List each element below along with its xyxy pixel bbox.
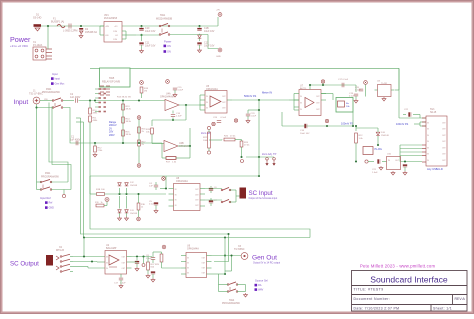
svg-text:200V: 200V xyxy=(109,134,115,137)
svg-text:PROGRAMASW: PROGRAMASW xyxy=(41,175,60,178)
svg-text:MS22ANW03B: MS22ANW03B xyxy=(156,18,172,21)
svg-text:1.0uF: 1.0uF xyxy=(178,90,184,92)
svg-text:Input: Input xyxy=(55,78,61,81)
svg-text:OUT: OUT xyxy=(122,256,126,258)
svg-text:+9 to +0 VDC: +9 to +0 VDC xyxy=(10,44,29,48)
svg-text:GN: GN xyxy=(167,50,171,53)
svg-text:PL-RG: PL-RG xyxy=(375,148,382,151)
svg-text:0.1uF: 0.1uF xyxy=(149,204,155,206)
svg-text:38.3k: 38.3k xyxy=(126,134,132,136)
svg-text:OUT: OUT xyxy=(442,160,446,162)
svg-text:OPA1644A: OPA1644A xyxy=(206,88,218,91)
svg-text:OUT: OUT xyxy=(442,135,446,137)
svg-text:ON: ON xyxy=(167,45,171,48)
svg-text:Meter IN: Meter IN xyxy=(262,91,272,95)
svg-text:1k: 1k xyxy=(141,207,143,209)
svg-text:OUT: OUT xyxy=(122,268,126,270)
svg-text:R13 38.3k 1W: R13 38.3k 1W xyxy=(117,97,132,99)
svg-text:Zero Adj. TP: Zero Adj. TP xyxy=(262,152,277,156)
svg-text:0.1uF: 0.1uF xyxy=(221,117,227,119)
svg-text:OUT: OUT xyxy=(442,154,446,156)
svg-text:27.4k: 27.4k xyxy=(244,145,250,147)
svg-text:Zero Adj: Zero Adj xyxy=(201,131,211,135)
svg-text:Power: Power xyxy=(10,35,31,44)
svg-text:1.0uF: 1.0uF xyxy=(251,116,257,118)
svg-text:1uF 400V: 1uF 400V xyxy=(70,139,81,142)
svg-text:ZUK1209S5: ZUK1209S5 xyxy=(104,17,118,20)
svg-text:Soundcard Interface: Soundcard Interface xyxy=(370,275,448,285)
svg-text:1uF 400V: 1uF 400V xyxy=(70,96,81,99)
svg-text:BAL/AMP: BAL/AMP xyxy=(106,247,117,250)
svg-text:500mV FS: 500mV FS xyxy=(244,94,257,98)
svg-text:PROGRAMASW: PROGRAMASW xyxy=(222,302,241,305)
svg-text:OUT: OUT xyxy=(122,262,126,264)
svg-text:OUT: OUT xyxy=(316,96,320,98)
svg-text:OPA1644A: OPA1644A xyxy=(176,180,188,183)
svg-text:+9V: +9V xyxy=(216,10,220,12)
svg-text:OUT: OUT xyxy=(442,147,446,149)
svg-text:OUT: OUT xyxy=(195,205,199,207)
svg-text:OUT: OUT xyxy=(195,189,199,191)
svg-text:38.3k: 38.3k xyxy=(126,121,132,123)
svg-text:1uF: 1uF xyxy=(149,186,153,188)
svg-text:1M: 1M xyxy=(144,91,147,93)
svg-text:GND: GND xyxy=(216,56,221,58)
svg-text:SIL15: SIL15 xyxy=(430,111,437,114)
svg-text:Output of the full-scale input: Output of the full-scale input xyxy=(249,197,278,200)
svg-text:COM: COM xyxy=(113,39,118,41)
svg-text:Input Ref: Input Ref xyxy=(40,196,51,200)
svg-text:Document Number:: Document Number: xyxy=(354,297,391,301)
svg-text:Input: Input xyxy=(14,99,29,106)
svg-text:1N4148: 1N4148 xyxy=(130,213,138,215)
svg-text:TITLE: #TEST9: TITLE: #TEST9 xyxy=(354,288,384,292)
svg-text:OUT: OUT xyxy=(316,109,320,111)
svg-text:1k: 1k xyxy=(101,202,103,204)
svg-text:OPA1644: OPA1644 xyxy=(179,145,190,148)
svg-text:OUT: OUT xyxy=(195,194,199,196)
svg-text:Ref: Ref xyxy=(49,202,53,205)
svg-text:10uF 16V: 10uF 16V xyxy=(204,30,215,33)
svg-text:OUT: OUT xyxy=(202,268,206,270)
svg-text:L-0935 12PM: L-0935 12PM xyxy=(63,30,77,33)
svg-text:OUT: OUT xyxy=(442,122,446,124)
svg-text:OUT: OUT xyxy=(202,258,206,260)
svg-text:100mV FS: 100mV FS xyxy=(341,122,354,126)
svg-text:27.4k: 27.4k xyxy=(230,136,236,138)
svg-text:Any USB/A-D: Any USB/A-D xyxy=(427,167,443,171)
svg-text:Source Sel: Source Sel xyxy=(255,279,268,283)
svg-text:1.0uF: 1.0uF xyxy=(372,172,378,174)
svg-text:GND: GND xyxy=(49,207,55,210)
svg-text:Output 0V to 14 RC output: Output 0V to 14 RC output xyxy=(253,261,280,264)
svg-text:0.1uF: 0.1uF xyxy=(355,90,361,92)
svg-text:REV:A: REV:A xyxy=(455,297,466,301)
svg-text:WAV: WAV xyxy=(258,289,264,292)
svg-text:TS1-LF-BNC: TS1-LF-BNC xyxy=(29,93,43,96)
svg-text:RELAY-DP 24VB: RELAY-DP 24VB xyxy=(102,81,120,84)
svg-text:1.0uF: 1.0uF xyxy=(176,116,182,118)
svg-text:OPA1644A: OPA1644A xyxy=(187,248,199,251)
svg-text:SC Output: SC Output xyxy=(10,261,39,268)
svg-text:OPA1644AM: OPA1644AM xyxy=(160,95,174,98)
svg-text:PROGRAMASW: PROGRAMASW xyxy=(42,91,61,94)
svg-text:MTGJX: MTGJX xyxy=(56,249,65,252)
svg-text:1N4148: 1N4148 xyxy=(381,135,389,137)
svg-text:0.1uF: 0.1uF xyxy=(343,79,349,81)
svg-text:1.0uF: 1.0uF xyxy=(146,258,152,260)
svg-text:10uF 16V: 10uF 16V xyxy=(300,133,310,135)
svg-text:OUT: OUT xyxy=(222,107,226,109)
svg-text:Gen Out: Gen Out xyxy=(252,255,277,262)
svg-text:OUT: OUT xyxy=(195,200,199,202)
svg-text:Sheet: 1/1: Sheet: 1/1 xyxy=(433,307,452,311)
svg-text:SC Input: SC Input xyxy=(249,190,273,197)
svg-text:38.3k: 38.3k xyxy=(126,109,132,111)
svg-text:TL431: TL431 xyxy=(381,83,388,85)
svg-text:1N5408 3A: 1N5408 3A xyxy=(85,31,97,34)
svg-text:10uF 16V: 10uF 16V xyxy=(145,30,156,33)
svg-text:OUT: OUT xyxy=(222,102,226,104)
svg-text:OUT: OUT xyxy=(442,141,446,143)
svg-text:Gen Mux: Gen Mux xyxy=(55,83,66,86)
svg-text:Pete Millett 2023 - www.pmille: Pete Millett 2023 - www.pmillett.com xyxy=(360,264,435,269)
svg-text:Power: Power xyxy=(164,40,171,44)
svg-text:OUT: OUT xyxy=(222,96,226,98)
svg-text:BUSSF1 (A): BUSSF1 (A) xyxy=(51,21,64,24)
svg-text:10uF 16V: 10uF 16V xyxy=(145,45,156,48)
svg-text:Input: Input xyxy=(52,72,58,76)
svg-text:100mV FS: 100mV FS xyxy=(396,122,409,126)
svg-text:AD711: AD711 xyxy=(300,87,307,90)
svg-text:OUT: OUT xyxy=(316,103,320,105)
svg-text:SS-14D: SS-14D xyxy=(33,17,42,20)
svg-text:OUT: OUT xyxy=(442,129,446,131)
svg-text:OUT: OUT xyxy=(202,273,206,275)
svg-text:RA: RA xyxy=(258,284,262,287)
svg-text:TGT-BNC: TGT-BNC xyxy=(234,248,245,251)
svg-text:10uF 16V: 10uF 16V xyxy=(204,45,215,48)
svg-text:OUT: OUT xyxy=(202,263,206,265)
svg-text:COM: COM xyxy=(113,31,118,33)
svg-text:PJ-102A: PJ-102A xyxy=(33,44,43,47)
svg-text:1N4148: 1N4148 xyxy=(130,185,138,187)
svg-text:Date: 7/10/2023 2:07 PM: Date: 7/10/2023 2:07 PM xyxy=(354,307,400,311)
